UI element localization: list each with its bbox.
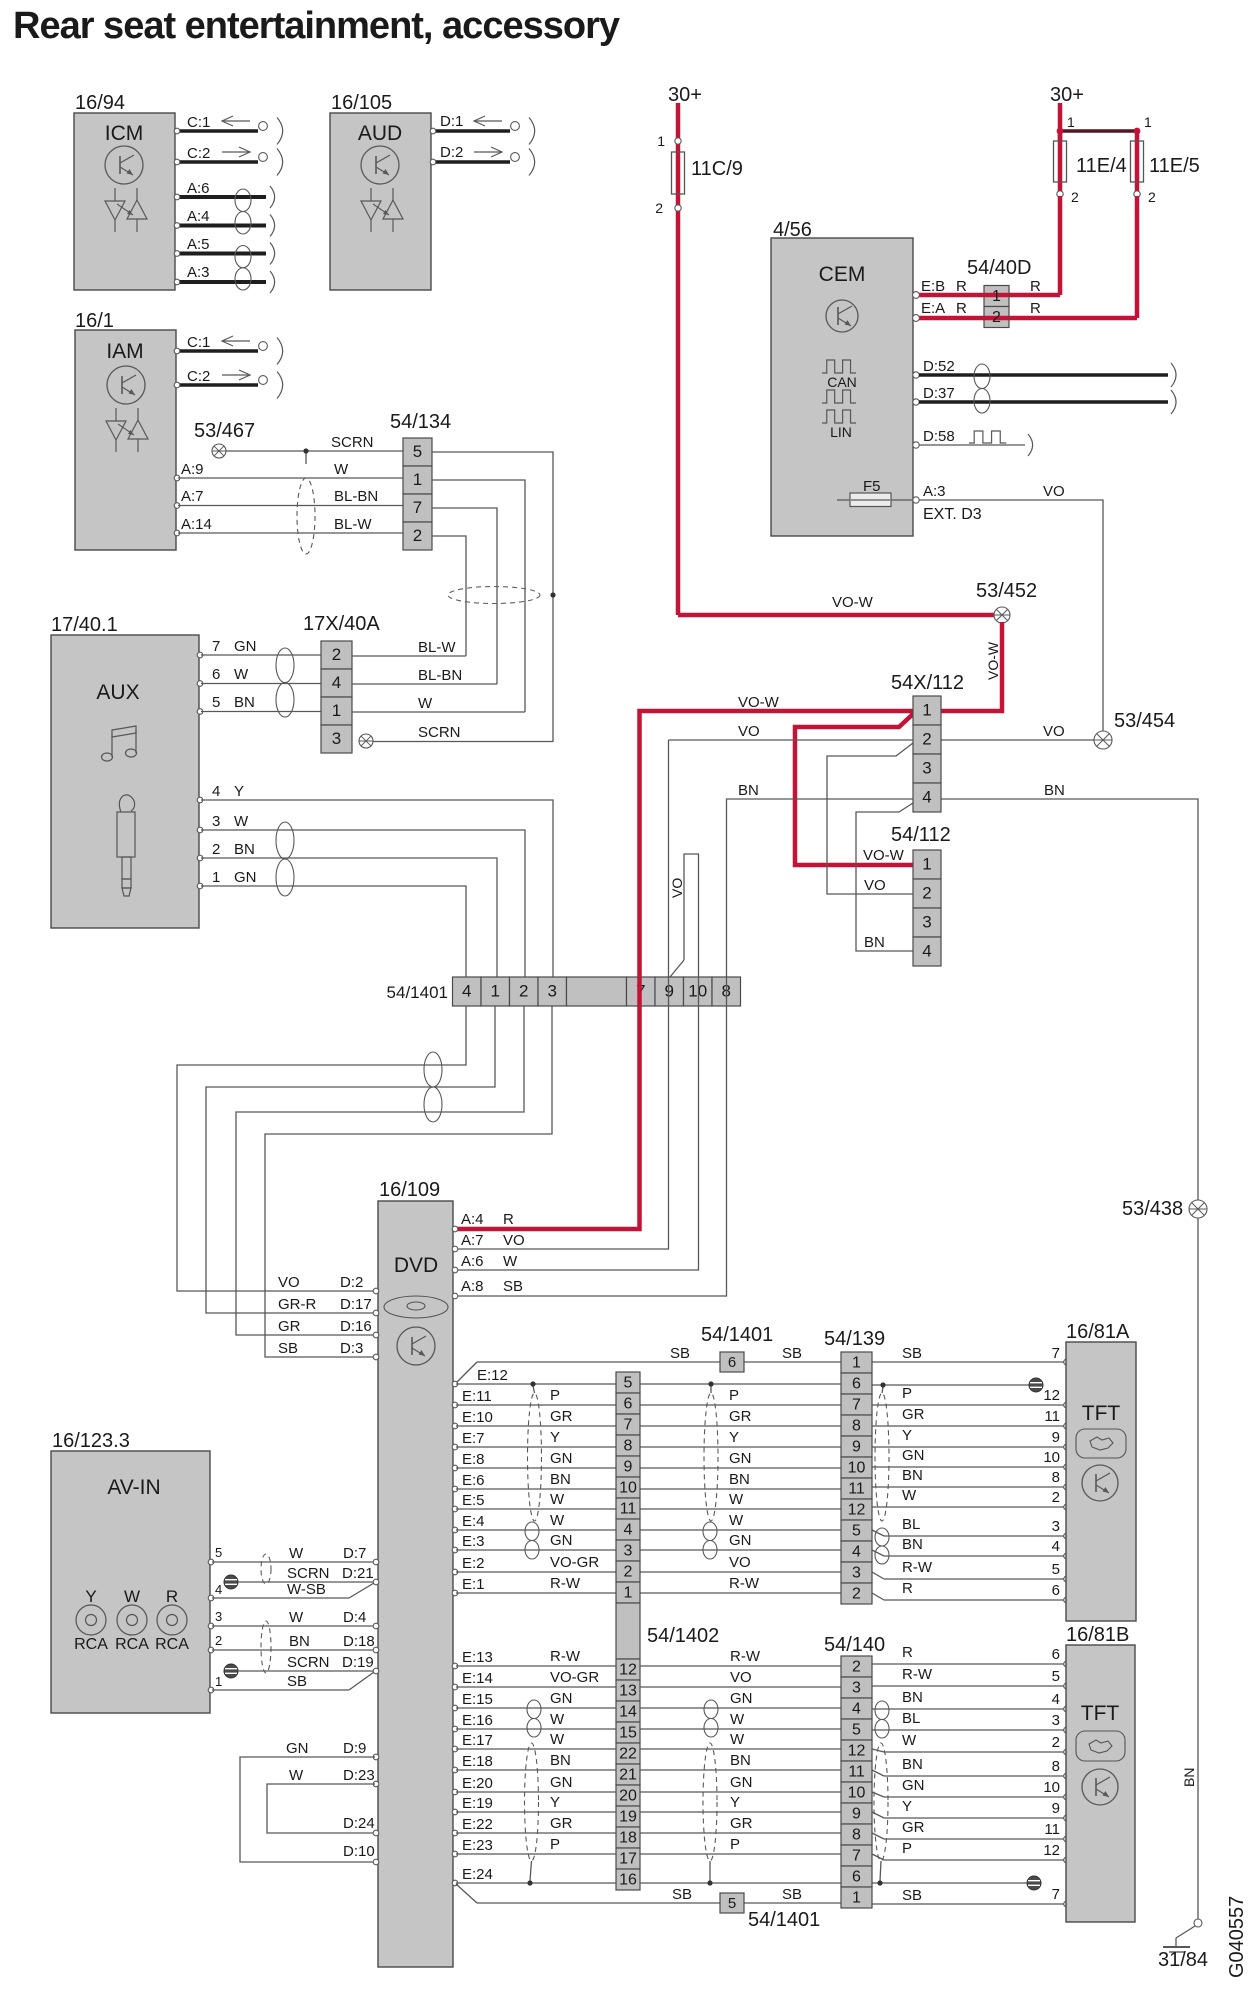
svg-text:SB: SB — [672, 1886, 692, 1903]
svg-text:2: 2 — [922, 884, 931, 903]
svg-text:A:7: A:7 — [181, 488, 204, 505]
IAM pin C:2 wire — [174, 368, 282, 399]
connector 54/112 — [891, 824, 951, 966]
svg-text:2: 2 — [1052, 1489, 1060, 1506]
svg-text:F5: F5 — [863, 478, 881, 495]
shield symbol and wire 17X/40A pin 3 SCRN — [359, 724, 553, 748]
svg-text:W: W — [729, 1491, 744, 1508]
svg-text:11: 11 — [1044, 1408, 1060, 1425]
ICM pin A:5 wire — [174, 236, 274, 265]
svg-text:4: 4 — [1052, 1691, 1060, 1708]
svg-text:6: 6 — [852, 1869, 861, 1886]
svg-text:D:1: D:1 — [440, 113, 463, 130]
TFT-B transistor icon — [1082, 1769, 1118, 1805]
shield lower right with drain dot — [874, 1743, 888, 1886]
svg-text:W: W — [289, 1545, 304, 1562]
svg-text:E:16: E:16 — [462, 1712, 493, 1729]
svg-text:A:14: A:14 — [181, 516, 212, 533]
svg-text:54/1402: 54/1402 — [647, 1625, 719, 1647]
wire DVD E:1 row — [452, 1575, 1069, 1603]
svg-text:SB: SB — [902, 1345, 922, 1362]
svg-text:E:15: E:15 — [462, 1691, 493, 1708]
AUX pin 5 wire BN — [197, 694, 321, 714]
wire SB from DVD E:24 to TFT-B pin 7 via 54/1401 pin 5 and 54/140 pin 1 — [456, 1884, 1069, 1907]
svg-text:4: 4 — [215, 1582, 222, 1597]
svg-text:9: 9 — [1052, 1429, 1060, 1446]
svg-text:Y: Y — [902, 1798, 912, 1815]
wire from 54/134 pin 5 (SCRN) — [432, 452, 553, 742]
wire 54/1401 pin 10 to DVD A:6 — [456, 1006, 699, 1270]
svg-text:E:23: E:23 — [462, 1837, 493, 1854]
svg-text:6: 6 — [624, 1396, 633, 1413]
svg-text:R: R — [1030, 278, 1041, 295]
TFT-B screen icon — [1076, 1731, 1125, 1761]
svg-text:3: 3 — [1052, 1518, 1060, 1535]
DVD D:9 to D:10 loop wire GN — [240, 1740, 379, 1865]
svg-text:12: 12 — [1043, 1842, 1060, 1859]
svg-text:GN: GN — [729, 1450, 752, 1467]
svg-text:13: 13 — [619, 1683, 637, 1700]
TFT-A transistor icon — [1082, 1465, 1118, 1501]
svg-text:BN: BN — [729, 1471, 750, 1488]
svg-text:5: 5 — [212, 694, 220, 711]
svg-text:IAM: IAM — [106, 340, 143, 363]
svg-text:17: 17 — [619, 1851, 637, 1868]
svg-text:1: 1 — [922, 855, 931, 874]
svg-text:W: W — [289, 1767, 304, 1784]
svg-text:12: 12 — [848, 1502, 866, 1519]
connector 54/1402 — [616, 1372, 719, 1890]
svg-text:LIN: LIN — [830, 424, 852, 440]
svg-text:VO: VO — [1043, 483, 1065, 500]
svg-text:D:19: D:19 — [342, 1654, 374, 1671]
fuse 11C/9 — [655, 133, 743, 216]
svg-text:6: 6 — [1052, 1582, 1060, 1599]
twisted pair lower right — [875, 1701, 889, 1738]
cable shield ellipse horizontal — [448, 587, 556, 604]
svg-text:30+: 30+ — [668, 84, 702, 106]
AUX pin 4 wire Y — [197, 783, 553, 977]
svg-text:7: 7 — [852, 1397, 861, 1414]
svg-text:1: 1 — [992, 288, 1001, 305]
connector 54/1401 pin 6 — [701, 1324, 773, 1372]
svg-text:RCA: RCA — [115, 1636, 149, 1653]
svg-text:1: 1 — [1144, 114, 1152, 130]
svg-text:VO-GR: VO-GR — [550, 1554, 599, 1571]
twisted pairs below 54/1401 — [424, 1052, 442, 1122]
wire DVD E:19 row — [452, 1794, 1069, 1821]
svg-text:GN: GN — [550, 1774, 573, 1791]
svg-text:2: 2 — [212, 841, 220, 858]
overlay wires through 54/1401 — [637, 977, 642, 1006]
svg-text:5: 5 — [1052, 1561, 1060, 1578]
svg-text:P: P — [550, 1836, 560, 1853]
svg-text:R: R — [956, 278, 967, 295]
display 16/81A TFT box — [1066, 1321, 1136, 1621]
svg-text:W: W — [234, 666, 249, 683]
svg-text:VO: VO — [1043, 723, 1065, 740]
wire DVD E:8 row — [452, 1447, 1069, 1471]
svg-text:VO: VO — [864, 877, 886, 894]
wire SB from DVD E:12 to TFT-A pin 7 via 54/1401 pin 6 and 54/139 pin 1 — [456, 1345, 1069, 1383]
svg-text:9: 9 — [852, 1806, 861, 1823]
svg-text:17/40.1: 17/40.1 — [51, 614, 118, 636]
ICM pin C:1 wire — [174, 114, 282, 145]
connector 54/40D — [967, 257, 1032, 328]
svg-text:R: R — [902, 1580, 913, 1597]
twisted pair E:15/E:16 left — [527, 1700, 541, 1737]
svg-text:P: P — [902, 1385, 912, 1402]
svg-text:Y: Y — [730, 1794, 740, 1811]
ICM transistor icon — [105, 146, 143, 184]
twisted pair E:4/E:3 left — [525, 1522, 539, 1559]
svg-text:16/105: 16/105 — [331, 92, 392, 114]
svg-text:R: R — [956, 300, 967, 317]
ICM pin C:2 wire — [174, 145, 282, 176]
svg-text:11: 11 — [848, 1481, 865, 1498]
supply wire to fuses 11E/4 11E/5 — [1058, 103, 1063, 141]
svg-text:D:16: D:16 — [340, 1318, 372, 1335]
svg-text:VO: VO — [738, 723, 760, 740]
svg-text:1: 1 — [852, 1355, 861, 1372]
wire SCRN from 53/467 to 54/134 pin 5 — [226, 434, 403, 451]
ICM pin A:3 wire — [174, 264, 274, 293]
svg-text:D:23: D:23 — [343, 1767, 375, 1784]
svg-text:BN: BN — [902, 1689, 923, 1706]
AUX pin 3 wire W — [197, 813, 525, 977]
svg-text:54/1401: 54/1401 — [387, 983, 448, 1002]
shield termination and SCRN wire to DVD D:19 — [224, 1654, 379, 1678]
shield lower left with drain dot — [525, 1743, 539, 1886]
svg-text:Y: Y — [550, 1794, 560, 1811]
svg-text:R: R — [166, 1587, 178, 1606]
svg-text:BL-BN: BL-BN — [334, 488, 378, 505]
svg-text:SB: SB — [902, 1887, 922, 1904]
svg-text:VO: VO — [729, 1554, 751, 1571]
svg-text:17X/40A: 17X/40A — [303, 613, 380, 635]
svg-text:4: 4 — [852, 1701, 861, 1718]
svg-text:1: 1 — [852, 1890, 861, 1907]
svg-text:R: R — [902, 1644, 913, 1661]
svg-text:VO-W: VO-W — [738, 694, 780, 711]
wire VO from 53/454 to 54X/112 pin 2 — [941, 723, 1094, 740]
svg-text:2: 2 — [992, 309, 1001, 326]
svg-text:W: W — [902, 1487, 917, 1504]
DVD pin A:8 — [452, 1278, 523, 1299]
svg-text:4/56: 4/56 — [773, 219, 812, 241]
wire from 54/134 pin 1 (W) — [432, 480, 525, 712]
svg-text:VO: VO — [669, 878, 685, 898]
IAM pin C:1 wire — [174, 334, 282, 365]
svg-text:TFT: TFT — [1082, 1402, 1121, 1425]
svg-text:BN: BN — [234, 841, 255, 858]
svg-text:1: 1 — [491, 982, 500, 1001]
svg-text:R: R — [1030, 300, 1041, 317]
display 16/81B TFT box — [1066, 1624, 1135, 1922]
svg-text:GR: GR — [729, 1408, 752, 1425]
wire CEM D:58 LIN — [913, 428, 1033, 456]
svg-text:BN: BN — [738, 782, 759, 799]
DVD pin D:16 — [278, 1318, 379, 1338]
svg-text:16/81B: 16/81B — [1066, 1624, 1129, 1646]
svg-text:GN: GN — [902, 1447, 925, 1464]
svg-text:9: 9 — [624, 1459, 633, 1476]
svg-text:P: P — [902, 1840, 912, 1857]
svg-text:GN: GN — [286, 1740, 309, 1757]
wire DVD E:11 row — [452, 1385, 1069, 1408]
svg-text:16: 16 — [619, 1872, 637, 1889]
svg-text:9: 9 — [1052, 1800, 1060, 1817]
svg-text:3: 3 — [922, 913, 931, 932]
svg-text:BN: BN — [1181, 1768, 1197, 1787]
svg-text:11: 11 — [848, 1764, 865, 1781]
svg-text:W: W — [550, 1711, 565, 1728]
svg-text:54X/112: 54X/112 — [891, 672, 964, 694]
svg-text:BN: BN — [902, 1536, 923, 1553]
wire DVD E:15 row — [452, 1689, 1069, 1712]
svg-text:GR: GR — [550, 1815, 573, 1832]
svg-text:2: 2 — [655, 200, 663, 216]
svg-text:A:7: A:7 — [461, 1232, 484, 1249]
svg-text:10: 10 — [848, 1785, 866, 1802]
svg-text:E:12: E:12 — [477, 1367, 508, 1384]
ICM thyristor icon — [105, 188, 147, 232]
svg-text:TFT: TFT — [1081, 1702, 1120, 1725]
svg-text:VO: VO — [730, 1669, 752, 1686]
splice 53/438 — [1122, 1198, 1207, 1220]
svg-text:W-SB: W-SB — [287, 1581, 326, 1598]
twisted pairs AUX 3/2/1 — [276, 822, 294, 896]
svg-text:54/1401: 54/1401 — [701, 1324, 773, 1346]
AUX jack plug icon — [117, 795, 135, 896]
wire DVD E:4 row — [452, 1512, 1069, 1539]
svg-text:E:20: E:20 — [462, 1775, 493, 1792]
wire VO-W down from 53/452 to 54X/112 pin 1 — [941, 622, 1002, 711]
svg-text:W: W — [730, 1731, 745, 1748]
svg-text:E:8: E:8 — [462, 1451, 485, 1468]
svg-text:54/112: 54/112 — [891, 824, 951, 846]
DVD pin A:4 — [452, 1211, 514, 1232]
connector 54/134 — [390, 411, 451, 550]
svg-text:12: 12 — [848, 1743, 866, 1760]
svg-text:21: 21 — [619, 1767, 637, 1784]
wire 17X/40A pin 2 BL-W — [352, 639, 466, 656]
svg-text:8: 8 — [1052, 1469, 1060, 1486]
svg-text:7: 7 — [1052, 1345, 1060, 1362]
svg-text:BN: BN — [902, 1467, 923, 1484]
svg-text:W: W — [503, 1253, 518, 1270]
svg-text:2: 2 — [1148, 189, 1156, 205]
svg-text:53/438: 53/438 — [1122, 1198, 1183, 1220]
wire VO-W from fuse 11C/9 to splice 53/452 — [678, 613, 998, 618]
svg-text:ICM: ICM — [105, 122, 144, 145]
svg-text:R-W: R-W — [730, 1648, 761, 1665]
ICM pin A:6 wire — [174, 180, 274, 208]
connector 54/1401 horizontal strip — [387, 977, 741, 1006]
svg-text:1: 1 — [332, 701, 341, 720]
svg-text:BN: BN — [550, 1752, 571, 1769]
svg-text:SB: SB — [278, 1340, 298, 1357]
svg-text:5: 5 — [413, 442, 422, 461]
svg-text:4: 4 — [852, 1544, 861, 1561]
svg-text:D:9: D:9 — [343, 1740, 366, 1757]
IAM transistor icon — [107, 366, 145, 404]
svg-text:12: 12 — [1043, 1387, 1060, 1404]
AV-IN pin 2 wire BN to DVD D:18 — [208, 1633, 379, 1653]
auxiliary input 17/40.1 AUX box — [51, 614, 199, 928]
svg-text:3: 3 — [624, 1543, 633, 1560]
wire CEM D:52 CAN high — [913, 358, 1176, 387]
svg-text:BN: BN — [864, 934, 885, 951]
AUX pin 1 wire GN — [197, 869, 466, 977]
svg-text:GN: GN — [550, 1690, 573, 1707]
svg-text:A:4: A:4 — [187, 208, 210, 225]
svg-text:20: 20 — [619, 1788, 637, 1805]
svg-text:1: 1 — [215, 1674, 222, 1689]
svg-text:P: P — [730, 1836, 740, 1853]
wire DVD E:17 row — [452, 1731, 1069, 1755]
wire DVD E:10 row — [452, 1406, 1069, 1429]
DVD pin A:6 — [452, 1253, 518, 1273]
svg-text:E:14: E:14 — [462, 1670, 493, 1687]
svg-text:1: 1 — [657, 133, 665, 149]
svg-text:E:6: E:6 — [462, 1472, 485, 1489]
svg-text:GN: GN — [730, 1774, 753, 1791]
svg-text:R: R — [503, 1211, 514, 1228]
shield termination and SCRN wire to DVD D:21 — [224, 1565, 379, 1589]
wire DVD E:16 row — [452, 1710, 1069, 1733]
AV-IN pin 1 wire SB — [208, 1672, 374, 1693]
svg-text:RCA: RCA — [155, 1636, 189, 1653]
shield lower middle with drain dot — [703, 1743, 717, 1886]
DVD disc icon — [384, 1296, 448, 1318]
svg-text:8: 8 — [852, 1418, 861, 1435]
svg-text:2: 2 — [852, 1586, 861, 1603]
wire BN down right side — [1181, 1218, 1198, 1919]
wire 54/1401 pin 8 to DVD A:8 — [456, 1006, 727, 1296]
svg-text:D:58: D:58 — [923, 428, 955, 445]
svg-text:W: W — [902, 1732, 917, 1749]
ground point 53/467 — [194, 420, 255, 458]
svg-text:C:2: C:2 — [187, 368, 210, 385]
wire CEM E:A red — [913, 300, 1137, 321]
svg-text:VO-W: VO-W — [985, 641, 1001, 680]
svg-text:10: 10 — [848, 1460, 866, 1477]
svg-text:A:9: A:9 — [181, 461, 204, 478]
svg-text:5: 5 — [215, 1545, 222, 1560]
54/40D red overlay wires — [984, 293, 1009, 298]
wire VO-W from 54X/112 pin 1 to DVD A:4 — [456, 711, 913, 1229]
wire BN 54X/112 pin 4 to right — [941, 782, 1198, 1200]
svg-text:E:4: E:4 — [462, 1513, 485, 1530]
ICM pin A:4 wire — [174, 208, 274, 237]
svg-text:SB: SB — [503, 1278, 523, 1295]
svg-text:4: 4 — [922, 788, 931, 807]
IAM thyristor icon — [106, 408, 148, 452]
svg-text:2: 2 — [922, 730, 931, 749]
svg-text:7: 7 — [1052, 1886, 1060, 1903]
svg-text:5: 5 — [852, 1722, 861, 1739]
AUD pin D:1 wire — [430, 113, 534, 145]
svg-text:EXT. D3: EXT. D3 — [923, 506, 982, 523]
audio module 16/105 AUD box — [330, 92, 431, 290]
svg-text:16/1: 16/1 — [75, 310, 114, 332]
wire DVD E:5 row — [452, 1487, 1069, 1512]
svg-text:11: 11 — [620, 1501, 637, 1518]
wire DVD E:23 row — [452, 1836, 1069, 1863]
svg-text:1: 1 — [212, 869, 220, 886]
svg-text:E:7: E:7 — [462, 1430, 485, 1447]
fuse 11C/9 supply wire — [676, 103, 681, 615]
svg-text:E:3: E:3 — [462, 1533, 485, 1550]
svg-text:8: 8 — [624, 1438, 633, 1455]
svg-text:C:2: C:2 — [187, 145, 210, 162]
DVD player 16/109 box — [378, 1179, 453, 1967]
svg-text:W: W — [550, 1491, 565, 1508]
svg-text:6: 6 — [212, 666, 220, 683]
svg-text:R-W: R-W — [902, 1666, 933, 1683]
svg-text:BN: BN — [730, 1752, 751, 1769]
svg-text:E:10: E:10 — [462, 1409, 493, 1426]
wire DVD E:18 row — [452, 1752, 1069, 1779]
svg-text:E:22: E:22 — [462, 1816, 493, 1833]
svg-text:SB: SB — [670, 1345, 690, 1362]
svg-text:R-W: R-W — [550, 1648, 581, 1665]
svg-text:R-W: R-W — [729, 1575, 760, 1592]
AV input 16/123.3 box — [51, 1430, 210, 1713]
svg-text:P: P — [550, 1387, 560, 1404]
svg-text:BL: BL — [902, 1710, 920, 1727]
IAM pin A:9 wire W — [174, 461, 403, 481]
svg-text:2: 2 — [519, 982, 528, 1001]
svg-text:AV-IN: AV-IN — [107, 1476, 160, 1499]
svg-text:VO: VO — [278, 1274, 300, 1291]
DVD pin D:17 — [278, 1296, 379, 1316]
svg-text:5: 5 — [1052, 1668, 1060, 1685]
svg-text:D:24: D:24 — [343, 1815, 375, 1832]
wire CEM D:37 CAN low — [913, 385, 1176, 414]
connector 54/139 — [824, 1328, 885, 1604]
svg-text:6: 6 — [852, 1376, 861, 1393]
wire fuse 11E/4 to CEM E:B — [1058, 196, 1063, 295]
svg-text:10: 10 — [619, 1480, 637, 1497]
svg-text:10: 10 — [1043, 1449, 1060, 1466]
svg-text:Y: Y — [234, 783, 244, 800]
AV-IN pin 5 wire W to DVD D:7 — [208, 1545, 379, 1565]
svg-text:54/40D: 54/40D — [967, 257, 1032, 279]
svg-text:R-W: R-W — [550, 1575, 581, 1592]
svg-text:4: 4 — [332, 673, 341, 692]
wire BN 54X/112 pin 4 to 54/1401 pin 8 — [727, 782, 914, 977]
svg-text:D:2: D:2 — [340, 1274, 363, 1291]
svg-text:11E/4: 11E/4 — [1076, 155, 1127, 177]
wire DVD E:2 row — [452, 1554, 1069, 1582]
svg-text:BL: BL — [902, 1516, 920, 1533]
svg-text:3: 3 — [852, 1680, 861, 1697]
svg-text:D:7: D:7 — [343, 1545, 366, 1562]
svg-text:D:3: D:3 — [340, 1340, 363, 1357]
svg-text:54/1401: 54/1401 — [748, 1909, 820, 1931]
svg-text:VO-W: VO-W — [832, 594, 874, 611]
AV-IN pin 4 wire W-SB — [208, 1581, 374, 1601]
twisted pairs AUX 7/6/5 — [276, 648, 294, 717]
svg-text:54/134: 54/134 — [390, 411, 451, 433]
svg-text:3: 3 — [548, 982, 557, 1001]
svg-text:16/94: 16/94 — [75, 92, 125, 114]
fuse F5 — [837, 478, 913, 507]
svg-text:W: W — [289, 1609, 304, 1626]
AUX pin 2 wire BN — [197, 841, 497, 977]
